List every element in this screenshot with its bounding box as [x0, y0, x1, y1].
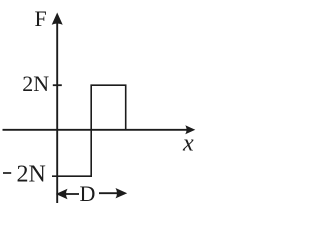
x axis (horizontal)	[3, 129, 189, 131]
F axis (vertical)	[56, 20, 58, 203]
svg-text:x: x	[182, 130, 194, 156]
label -2N	[3, 172, 11, 174]
svg-text:2N: 2N	[22, 71, 49, 96]
x axis arrowhead	[185, 125, 195, 134]
tick at +2N	[53, 84, 62, 86]
svg-text:2N: 2N	[17, 161, 46, 187]
D annotation: left arrow	[64, 193, 79, 195]
svg-text:D: D	[80, 181, 96, 206]
step function curve	[52, 85, 126, 176]
F axis arrowhead	[52, 13, 63, 25]
svg-text:F: F	[35, 6, 47, 31]
D annotation: right arrow	[99, 192, 119, 194]
